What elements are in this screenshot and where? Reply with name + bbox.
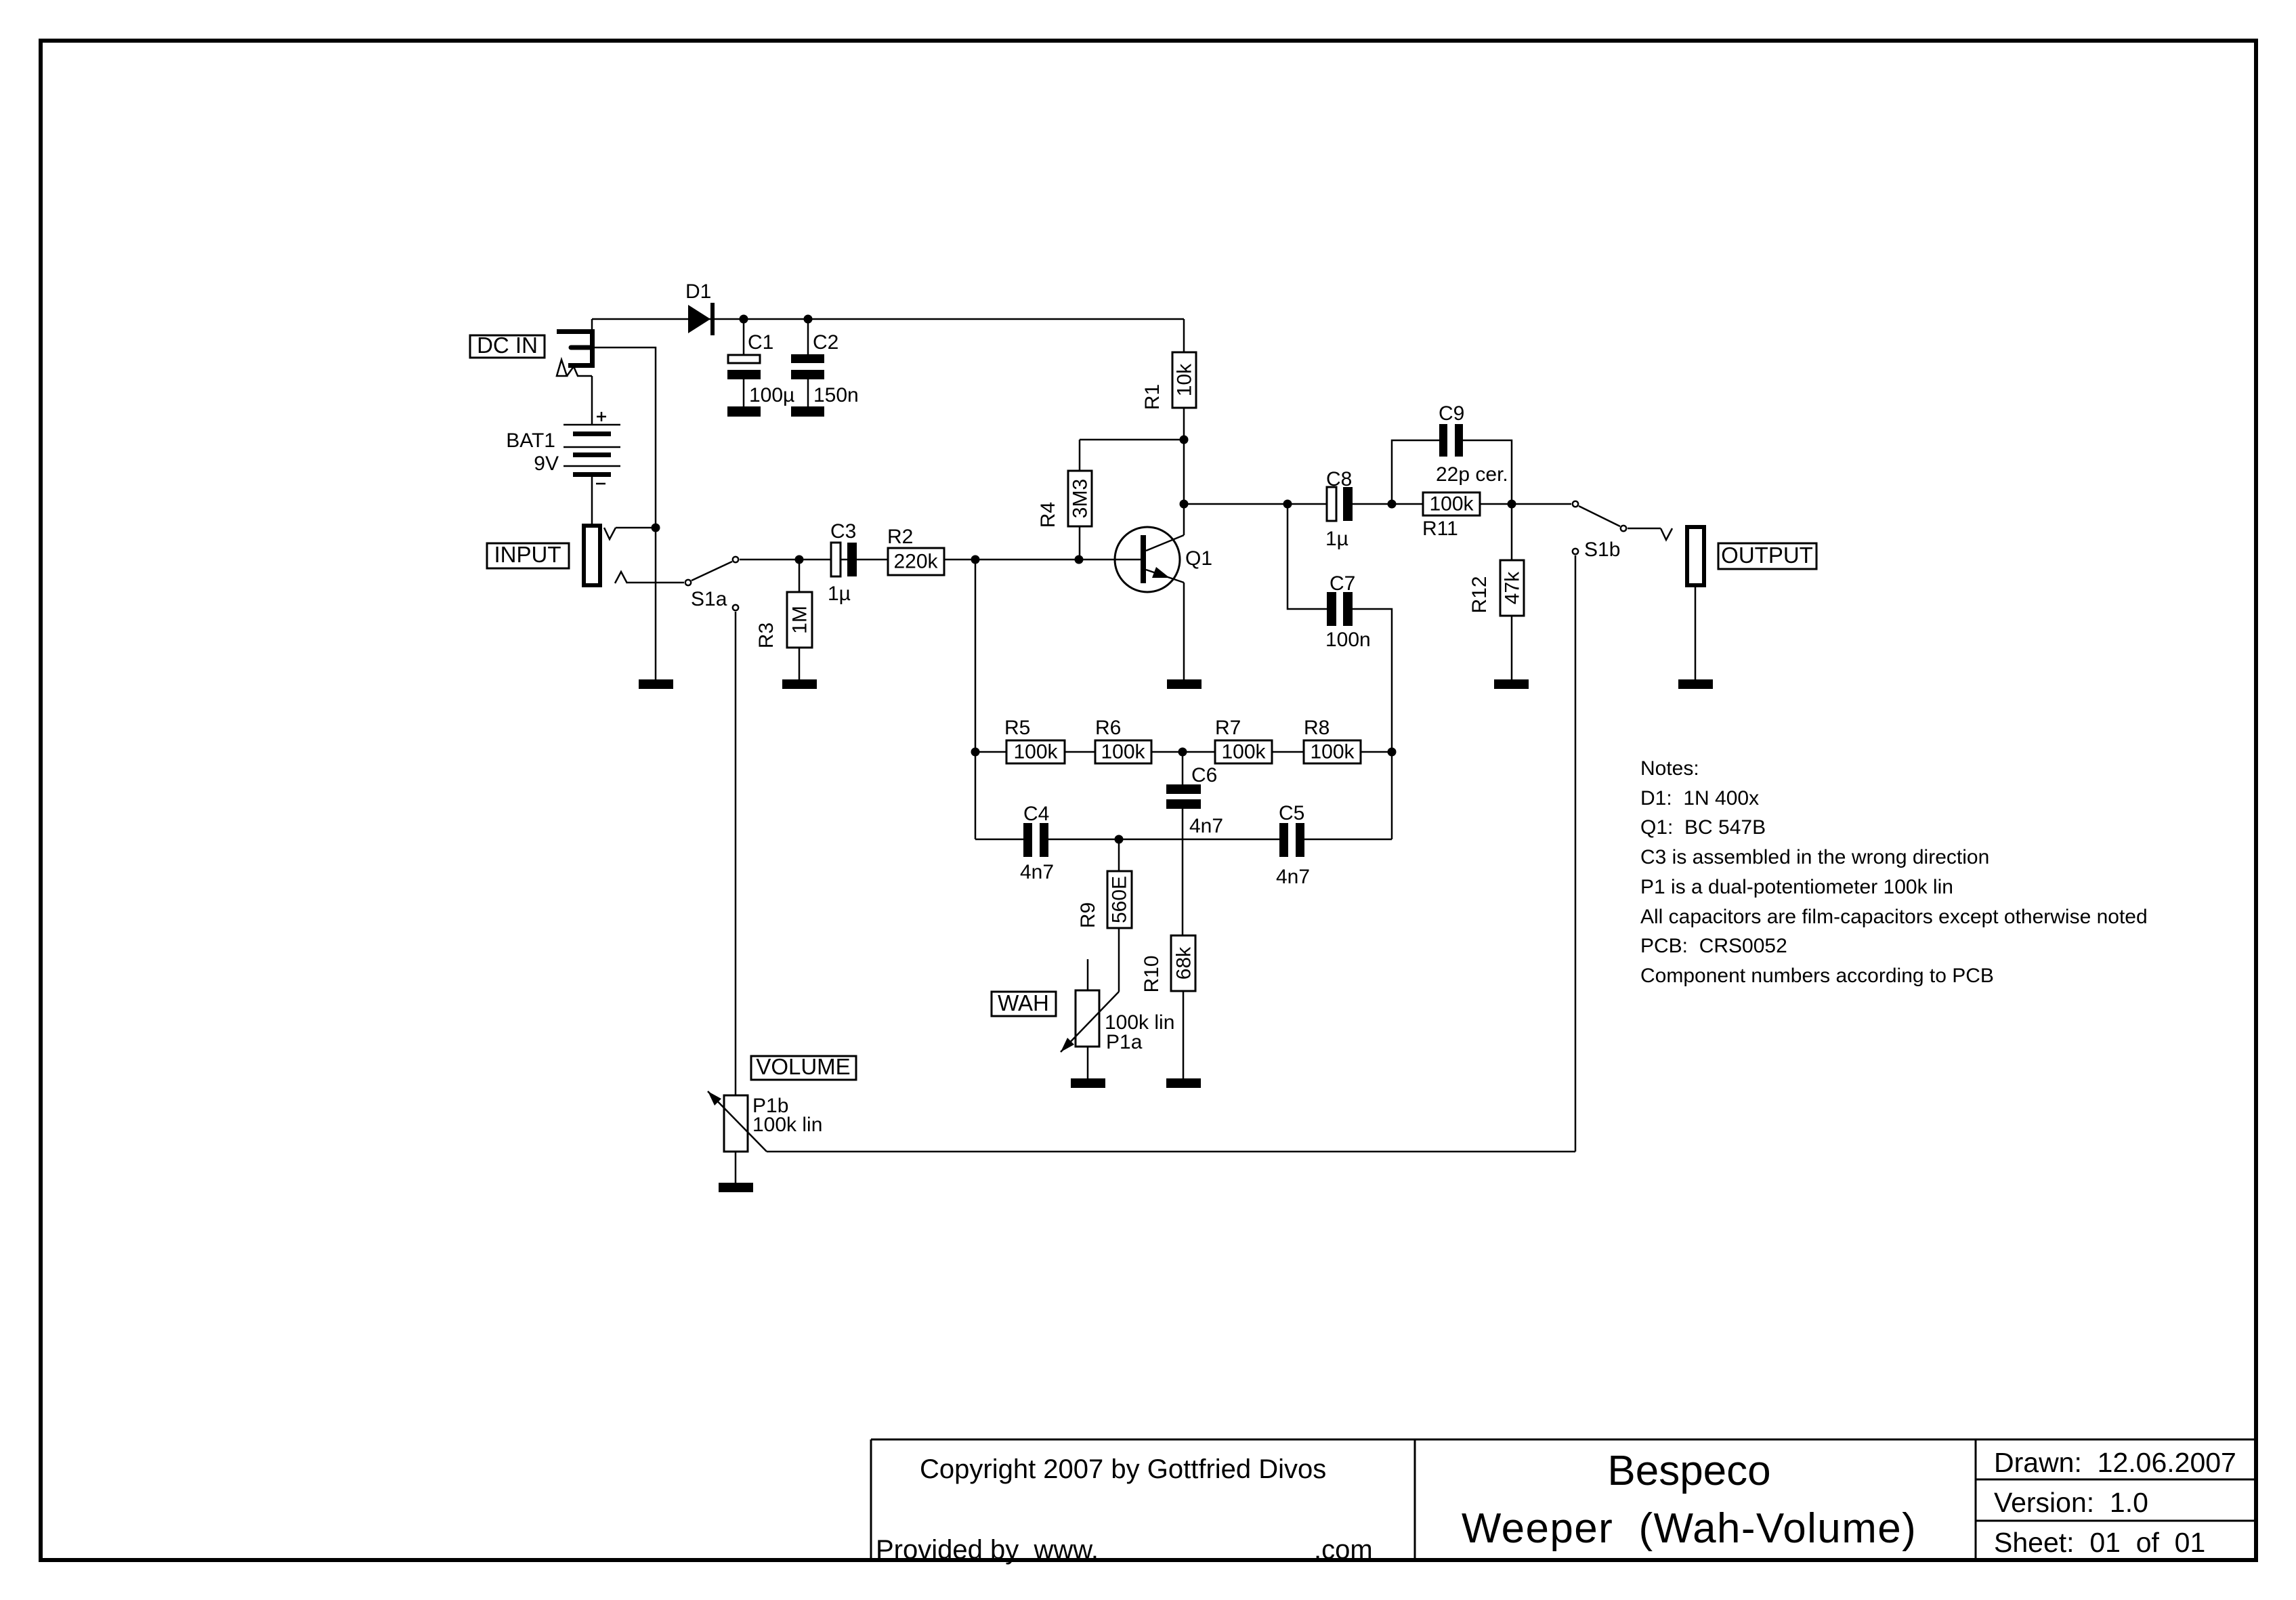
capacitor C8 xyxy=(1325,468,1353,550)
svg-text:R4: R4 xyxy=(1037,502,1059,528)
svg-text:P1a: P1a xyxy=(1106,1031,1143,1053)
svg-text:22p cer.: 22p cer. xyxy=(1436,463,1508,486)
svg-text:C6: C6 xyxy=(1191,764,1217,786)
input jack J1 xyxy=(584,526,627,585)
ground R10 xyxy=(1166,1078,1201,1088)
wire ladder segment 4 xyxy=(1272,751,1304,753)
node R9 top xyxy=(1115,835,1124,844)
resistor R12 xyxy=(1468,504,1524,679)
svg-text:100k: 100k xyxy=(1013,741,1058,763)
svg-text:220k: 220k xyxy=(893,551,938,573)
INPUT label xyxy=(487,542,569,568)
node C1 top xyxy=(740,315,748,324)
ground P1b xyxy=(719,1183,753,1192)
node ladder right xyxy=(1388,748,1397,757)
ground R3 xyxy=(782,679,817,689)
capacitor C5 xyxy=(1276,802,1310,888)
svg-text:WAH: WAH xyxy=(998,990,1049,1015)
capacitor C1 xyxy=(727,319,794,407)
node R2 right xyxy=(971,555,980,564)
wire input tip to switch xyxy=(627,582,684,584)
resistor R4 xyxy=(1037,440,1092,560)
wire input sleeve to ground node xyxy=(616,527,656,529)
wire R4 top to collector node xyxy=(1080,439,1184,441)
node C6 top xyxy=(1178,748,1187,757)
wire C9 branch xyxy=(1392,440,1439,504)
svg-text:Notes:: Notes: xyxy=(1640,757,1699,780)
svg-text:C7: C7 xyxy=(1330,572,1355,595)
wire C9 right down to output node xyxy=(1463,440,1512,504)
svg-text:R2: R2 xyxy=(887,526,913,548)
resistor R5 xyxy=(1004,717,1065,763)
wire emitter to ground xyxy=(1183,583,1185,679)
resistor R3 xyxy=(755,560,812,679)
title provided by xyxy=(876,1535,1373,1565)
battery BAT1 9V xyxy=(506,412,620,484)
wire S1b to output jack xyxy=(1628,528,1661,530)
wire C6 bottom to R10 xyxy=(1182,809,1184,935)
capacitor C9 xyxy=(1436,402,1508,486)
svg-text:100k: 100k xyxy=(1429,493,1474,515)
svg-text:R9: R9 xyxy=(1077,902,1099,928)
svg-text:C5: C5 xyxy=(1279,802,1304,824)
potentiometer P1a xyxy=(1061,959,1174,1078)
wire C8 to R11 node xyxy=(1353,503,1423,505)
svg-text:PCB: CRS0052: PCB: CRS0052 xyxy=(1640,935,1787,957)
wire C5 right to rail xyxy=(1304,839,1392,841)
wire battery minus to input jack xyxy=(591,476,593,526)
svg-text:D1: 1N 400x: D1: 1N 400x xyxy=(1640,787,1759,809)
node collector out xyxy=(1180,500,1189,509)
diode D1 xyxy=(685,280,715,335)
resistor R6 xyxy=(1095,717,1151,763)
svg-text:VOLUME: VOLUME xyxy=(756,1054,850,1079)
wire S1b lower throw down xyxy=(1575,555,1577,1152)
svg-text:R5: R5 xyxy=(1004,717,1030,739)
wire battery switch to battery xyxy=(591,376,593,425)
OUTPUT label xyxy=(1718,543,1816,569)
capacitor C3 xyxy=(828,520,857,605)
svg-text:R7: R7 xyxy=(1215,717,1241,739)
svg-text:Bespeco: Bespeco xyxy=(1607,1448,1770,1494)
node C8 right xyxy=(1388,500,1397,509)
svg-text:100k lin: 100k lin xyxy=(752,1114,822,1136)
switch S1a xyxy=(685,557,738,610)
wire volume bottom run xyxy=(767,1151,1575,1153)
resistor R10 xyxy=(1141,935,1195,1078)
svg-text:R12: R12 xyxy=(1468,576,1491,613)
svg-text:1M: 1M xyxy=(789,606,811,634)
svg-text:INPUT: INPUT xyxy=(494,542,561,567)
capacitor C6 xyxy=(1166,752,1223,837)
wire C4 to C5 xyxy=(1048,839,1279,841)
notes text xyxy=(1640,757,2148,987)
wire S1a to C3/R3 node xyxy=(740,559,1142,561)
svg-text:3M3: 3M3 xyxy=(1069,479,1092,518)
svg-text:C3 is assembled in the wrong d: C3 is assembled in the wrong direction xyxy=(1640,846,1989,868)
ground C2 xyxy=(791,406,824,417)
svg-text:BAT1: BAT1 xyxy=(506,429,555,452)
wire C7 branch xyxy=(1288,504,1327,609)
resistor R11 xyxy=(1422,492,1480,540)
wire collector node to C8 xyxy=(1184,503,1327,505)
title block xyxy=(871,1439,2255,1559)
output jack tip contact xyxy=(1661,528,1672,540)
svg-text:C1: C1 xyxy=(748,331,773,354)
resistor R1 xyxy=(1141,319,1196,535)
wire top power rail xyxy=(592,318,1184,320)
svg-text:C4: C4 xyxy=(1023,803,1049,825)
svg-text:4n7: 4n7 xyxy=(1189,815,1223,837)
svg-text:All capacitors are film-capaci: All capacitors are film-capacitors excep… xyxy=(1640,906,2148,928)
svg-text:Drawn: 12.06.2007: Drawn: 12.06.2007 xyxy=(1994,1447,2236,1478)
svg-text:1µ: 1µ xyxy=(828,583,851,605)
svg-text:4n7: 4n7 xyxy=(1020,861,1054,883)
svg-text:Version: 1.0: Version: 1.0 xyxy=(1994,1487,2148,1518)
svg-text:OUTPUT: OUTPUT xyxy=(1721,543,1813,568)
ground R12 xyxy=(1494,679,1529,689)
node ladder left xyxy=(971,748,980,757)
svg-text:560E: 560E xyxy=(1109,876,1131,923)
capacitor C4 xyxy=(1020,803,1054,883)
capacitor C2 xyxy=(791,319,859,407)
resistor R8 xyxy=(1304,717,1361,763)
wire ladder segment 5 xyxy=(1361,751,1392,753)
svg-text:100µ: 100µ xyxy=(749,384,794,406)
svg-text:R10: R10 xyxy=(1141,955,1163,992)
ground output xyxy=(1678,679,1713,689)
wire C7 right to ladder rail xyxy=(1353,609,1392,839)
svg-text:D1: D1 xyxy=(685,280,711,303)
svg-text:C3: C3 xyxy=(830,520,856,543)
node R4 bottom xyxy=(1075,555,1084,564)
ground C1 xyxy=(727,406,761,417)
svg-text:C9: C9 xyxy=(1439,402,1464,425)
output jack J3 xyxy=(1687,527,1704,679)
ground P1a xyxy=(1071,1078,1105,1088)
svg-text:C2: C2 xyxy=(813,331,838,354)
VOLUME label xyxy=(751,1054,856,1080)
svg-text:R8: R8 xyxy=(1304,717,1330,739)
node C2 top xyxy=(804,315,813,324)
node C7 branch xyxy=(1283,500,1292,509)
svg-text:R6: R6 xyxy=(1095,717,1121,739)
svg-text:150n: 150n xyxy=(813,384,859,406)
svg-text:R1: R1 xyxy=(1141,384,1164,410)
svg-text:1µ: 1µ xyxy=(1325,528,1348,550)
node input ground xyxy=(652,524,660,532)
svg-text:C8: C8 xyxy=(1326,468,1352,490)
node R3 top xyxy=(795,555,804,564)
wire C4 row left xyxy=(975,839,1023,841)
resistor R2 xyxy=(887,526,944,575)
svg-text:68k: 68k xyxy=(1173,946,1195,980)
svg-text:Copyright 2007 by Gottfried Di: Copyright 2007 by Gottfried Divos xyxy=(920,1454,1326,1484)
svg-text:Component numbers according to: Component numbers according to PCB xyxy=(1640,965,1994,987)
svg-text:P1 is a dual-potentiometer 100: P1 is a dual-potentiometer 100k lin xyxy=(1640,876,1953,898)
svg-text:10k: 10k xyxy=(1174,363,1196,396)
WAH label xyxy=(992,990,1056,1016)
node R12 top xyxy=(1508,500,1516,509)
resistor R7 xyxy=(1215,717,1272,763)
resistor R9 xyxy=(1077,839,1132,992)
potentiometer P1b xyxy=(708,1091,822,1183)
svg-text:.com: .com xyxy=(1314,1535,1373,1565)
wire S1a throw down to P1b xyxy=(735,612,737,1095)
node R1 bottom xyxy=(1180,436,1189,444)
svg-text:S1b: S1b xyxy=(1584,539,1620,561)
svg-text:9V: 9V xyxy=(534,452,559,475)
DC IN label xyxy=(470,333,545,358)
wire ladder segment 3 xyxy=(1151,751,1215,753)
capacitor C7 xyxy=(1325,572,1371,651)
svg-text:100n: 100n xyxy=(1325,629,1371,651)
wire R11 to S1b xyxy=(1480,503,1571,505)
switch S1b xyxy=(1573,501,1626,561)
wire DC jack pin to ground rail xyxy=(590,348,656,679)
svg-text:R3: R3 xyxy=(755,623,778,648)
wire ladder segment 2 xyxy=(1065,751,1095,753)
svg-text:Provided by www.: Provided by www. xyxy=(876,1535,1099,1565)
svg-text:Weeper (Wah-Volume): Weeper (Wah-Volume) xyxy=(1462,1505,1917,1552)
ground input xyxy=(639,679,673,689)
svg-text:100k: 100k xyxy=(1310,741,1355,763)
svg-text:100k: 100k xyxy=(1101,741,1145,763)
wire left ladder rail xyxy=(975,560,977,839)
svg-text:Sheet: 01 of 01: Sheet: 01 of 01 xyxy=(1994,1527,2205,1558)
svg-text:R11: R11 xyxy=(1422,518,1458,540)
svg-text:100k: 100k xyxy=(1221,741,1266,763)
transistor Q1 xyxy=(1115,527,1212,592)
svg-text:DC IN: DC IN xyxy=(477,333,538,358)
ground Q1 emitter xyxy=(1167,679,1202,689)
svg-text:Q1: Q1 xyxy=(1185,547,1212,570)
svg-text:47k: 47k xyxy=(1502,571,1524,604)
DC jack J2 xyxy=(557,319,595,376)
svg-text:S1a: S1a xyxy=(691,588,727,610)
svg-text:Q1: BC 547B: Q1: BC 547B xyxy=(1640,816,1766,839)
svg-text:4n7: 4n7 xyxy=(1276,866,1310,888)
wire ladder segment 1 xyxy=(975,751,1006,753)
